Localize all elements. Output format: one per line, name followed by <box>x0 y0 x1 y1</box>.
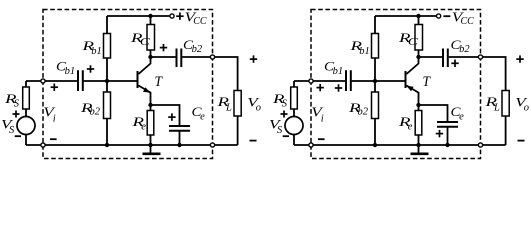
label minus Vo (left) <box>250 140 257 142</box>
wire input to Cb1 (left) <box>26 80 77 82</box>
capacitor Cb1 (right) <box>346 70 351 91</box>
wire Ce to bottom rail (left) <box>179 132 181 146</box>
svg-text:e: e <box>459 112 464 123</box>
source VS circle (right) <box>285 117 303 135</box>
dashed amplifier box (left) <box>43 10 213 159</box>
terminal output top (right) <box>478 55 482 59</box>
label plus Vo (left) <box>250 55 257 62</box>
wire input to Cb1 (right) <box>294 80 345 82</box>
svg-text:e: e <box>141 121 146 132</box>
resistor RS (right) <box>291 87 298 109</box>
wire top supply rail (left) <box>107 15 169 17</box>
capacitor Cb2 (left) <box>177 49 182 68</box>
ground symbol (left) <box>150 145 152 153</box>
svg-text:b2: b2 <box>192 44 203 55</box>
label plus Cb2 (left) <box>160 44 167 51</box>
svg-text:C: C <box>140 37 151 48</box>
source VS circle (left) <box>17 117 35 135</box>
label -VCC (right) <box>443 15 450 17</box>
wire Re vertical (left) <box>150 105 152 145</box>
label minus Vo (right) <box>518 140 525 142</box>
terminal input top (right) <box>309 79 313 83</box>
wire VS to bottom rail (left) <box>25 135 27 146</box>
capacitor Cb1 (left) <box>78 70 83 91</box>
label plus VS (left) <box>13 111 20 118</box>
wire Cb1 to base (left) <box>84 80 138 82</box>
dashed amplifier box (right) <box>311 10 481 159</box>
wire collector to Cb2 (right) <box>419 56 443 58</box>
wire RL to bottom rail (left) <box>237 116 239 145</box>
node Ce bottom junction (right) <box>445 143 449 147</box>
capacitor Ce (left) <box>169 126 190 131</box>
node Rb2 bottom junction (right) <box>373 143 377 147</box>
wire source branch top (right) <box>293 81 295 87</box>
resistor Rb2 (left) <box>104 92 111 119</box>
label +VCC (left) <box>176 13 183 20</box>
node junction top rail / RC (left) <box>148 14 152 18</box>
transistor T collector lead (left) <box>139 57 151 74</box>
transistor T collector lead (right) <box>407 57 419 74</box>
wire Cb2 to output terminal (right) <box>449 56 481 58</box>
transistor T emitter arrow NPN (left) <box>143 87 150 93</box>
ground symbol (right) <box>418 145 420 153</box>
transistor T emitter lead (right) <box>407 86 419 106</box>
resistor Rb1 (right) <box>372 34 379 59</box>
label minus VS (right) <box>283 135 289 137</box>
svg-text:C: C <box>408 37 419 48</box>
label plus Ce (left) <box>168 113 175 120</box>
svg-text:S: S <box>277 125 283 136</box>
terminal +VCC (left) <box>170 14 174 18</box>
wire RS to VS (right) <box>293 109 295 117</box>
transistor T base bar (left) <box>137 71 139 88</box>
label plus VS (right) <box>281 111 288 118</box>
wire Cb1 to base (right) <box>352 80 406 82</box>
resistor Rb1 (left) <box>104 34 111 59</box>
node Rb2 bottom junction (left) <box>105 143 109 147</box>
label minus VS (left) <box>15 135 21 137</box>
resistor RL (left) <box>234 91 241 117</box>
terminal output top (left) <box>210 55 214 59</box>
wire Rb2 vertical (right) <box>374 81 376 145</box>
wire Rb1 vertical (left) <box>106 16 108 81</box>
svg-text:b2: b2 <box>358 107 369 118</box>
node junction top rail / RC (right) <box>416 14 420 18</box>
wire collector to Cb2 (left) <box>151 56 176 58</box>
capacitor Cb2 (right) <box>443 49 448 68</box>
wire output terminal to RL (right) <box>483 57 506 91</box>
svg-text:o: o <box>256 102 261 113</box>
svg-text:b1: b1 <box>359 46 370 57</box>
wire Re vertical (right) <box>418 105 420 145</box>
terminal input top (left) <box>41 79 45 83</box>
transistor T base bar (right) <box>405 71 407 88</box>
label plus Vi (left) <box>51 84 58 91</box>
transistor T emitter lead (left) <box>139 86 151 106</box>
terminal output bottom (right) <box>478 143 482 147</box>
resistor RS (left) <box>23 87 30 109</box>
svg-text:e: e <box>408 121 413 132</box>
terminal output bottom (left) <box>210 143 214 147</box>
resistor Re (right) <box>415 111 422 136</box>
svg-text:b1: b1 <box>91 46 102 57</box>
resistor Re (left) <box>147 111 154 136</box>
svg-text:S: S <box>14 99 20 110</box>
terminal input bottom (right) <box>309 143 313 147</box>
terminal -VCC (right) <box>437 14 441 18</box>
label minus Vi (right) <box>318 138 325 140</box>
resistor RC (right) <box>415 25 423 51</box>
wire RS to VS (left) <box>25 109 27 117</box>
svg-text:b2: b2 <box>90 107 101 118</box>
svg-text:S: S <box>282 99 288 110</box>
label plus Vo (right) <box>516 55 523 62</box>
label plus Cb2 (right) <box>451 60 458 67</box>
wire RC vertical (left) <box>150 16 152 57</box>
wire RL to bottom rail (right) <box>505 116 507 145</box>
svg-text:i: i <box>321 113 324 124</box>
label minus Vi (left) <box>50 138 57 140</box>
svg-text:S: S <box>9 125 15 136</box>
node emitter junction (right) <box>416 103 420 107</box>
label plus Cb1 (left) <box>87 65 94 72</box>
svg-text:e: e <box>200 112 205 123</box>
resistor RL (right) <box>502 91 509 117</box>
node emitter junction (left) <box>148 103 152 107</box>
resistor Rb2 (right) <box>372 92 379 119</box>
label plus Vi (right) <box>317 84 324 91</box>
node collector junction (left) <box>148 55 152 59</box>
terminal input bottom (left) <box>41 143 45 147</box>
node base junction (left) <box>105 79 109 83</box>
wire source branch top (left) <box>25 81 27 87</box>
wire Rb2 vertical (left) <box>106 81 108 145</box>
node Re bottom junction (left) <box>148 143 152 147</box>
svg-text:i: i <box>53 113 56 124</box>
node Ce bottom junction (left) <box>177 143 181 147</box>
capacitor Ce (right) <box>437 122 458 127</box>
wire bottom rail (left) <box>26 144 238 146</box>
wire RC vertical (right) <box>418 16 420 57</box>
svg-text:b2: b2 <box>459 44 470 55</box>
wire bottom rail (right) <box>294 144 506 146</box>
label plus Cb1 (right) <box>335 84 342 91</box>
node base junction (right) <box>373 79 377 83</box>
label plus Ce (right) <box>436 130 443 137</box>
svg-text:CC: CC <box>193 16 207 27</box>
wire Rb1 vertical (right) <box>374 16 376 81</box>
wire emitter to Ce (right) <box>419 105 448 121</box>
wire Ce to bottom rail (right) <box>447 128 449 146</box>
svg-text:b1: b1 <box>65 66 76 77</box>
svg-text:L: L <box>225 103 232 114</box>
wire emitter to Ce (left) <box>151 105 180 125</box>
svg-text:b1: b1 <box>333 66 344 77</box>
wire top supply rail (right) <box>375 15 436 17</box>
transistor T emitter arrow PNP (right) <box>406 86 413 92</box>
svg-text:L: L <box>493 103 500 114</box>
node collector junction (right) <box>416 55 420 59</box>
node Re bottom junction (right) <box>416 143 420 147</box>
wire Cb2 to output terminal (left) <box>182 56 212 58</box>
svg-text:CC: CC <box>461 16 475 27</box>
resistor RC (left) <box>147 25 155 51</box>
wire output terminal to RL (left) <box>215 57 238 91</box>
wire VS to bottom rail (right) <box>293 135 295 146</box>
svg-text:o: o <box>524 102 529 113</box>
